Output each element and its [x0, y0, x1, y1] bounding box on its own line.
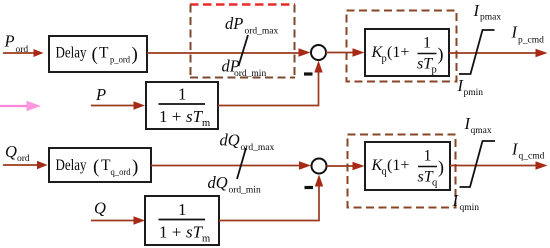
arrowhead into summer1	[299, 48, 311, 56]
svg-text:Q: Q	[94, 199, 106, 218]
wire Delay1 to summer1	[147, 52, 299, 54]
summing junction 1	[311, 45, 326, 60]
rate limiter dashed box dP (top edge red)	[190, 3, 295, 5]
minus sign 2	[305, 186, 314, 189]
wire Q input	[91, 220, 134, 222]
arrowhead into Kp	[353, 48, 365, 56]
svg-text:1: 1	[178, 85, 187, 104]
arrowhead output I_q_cmd	[536, 161, 548, 169]
block Kp PI controller	[365, 29, 449, 76]
wire summer2 to Kq	[327, 165, 355, 167]
svg-text:): )	[438, 157, 444, 178]
wire P input	[91, 105, 135, 107]
arrowhead Q into filter	[134, 216, 146, 224]
wire Q_ord input	[3, 164, 37, 166]
wire Q filter to summer2	[219, 186, 319, 221]
arrowhead P_ord	[34, 49, 44, 57]
arrowhead P into filter	[134, 101, 146, 109]
arrowhead up into summer1	[314, 61, 322, 73]
arrowhead Q_ord	[37, 161, 48, 169]
block measuring filter 1/(1+sTm) Q	[145, 196, 219, 245]
arrowhead into summer2	[299, 161, 311, 169]
block Kq PI controller	[365, 142, 450, 190]
svg-text:P: P	[95, 85, 106, 104]
svg-text:1: 1	[423, 35, 431, 52]
svg-text:1: 1	[424, 148, 432, 165]
block measuring filter 1/(1+sTm) P	[146, 82, 218, 129]
wire P_ord input	[3, 52, 37, 54]
block Delay (T_p_ord)	[49, 36, 147, 72]
summing junction 2	[312, 159, 327, 174]
wire summer1 to Kp	[326, 52, 354, 54]
faint artifact arrow (compression ghost)	[0, 105, 27, 107]
arrowhead output I_p_cmd	[536, 49, 548, 57]
saturation limiter 2	[460, 141, 496, 187]
minus sign 1	[304, 72, 313, 75]
svg-text:1: 1	[178, 200, 187, 219]
arrowhead up into summer2	[315, 175, 323, 187]
PI dashed box Kp	[347, 11, 457, 82]
block Delay (T_q_ord)	[49, 148, 151, 182]
saturation limiter 1	[459, 30, 495, 74]
svg-text:): )	[438, 44, 444, 65]
arrowhead into Kq	[353, 162, 365, 170]
wire Kq to output	[450, 165, 536, 167]
wire Kp to output	[449, 52, 536, 54]
rate limiter slash dQ	[237, 148, 246, 179]
wire Delay2 to summer2	[151, 165, 300, 167]
wire P filter to summer1	[218, 72, 319, 106]
PI dashed box Kq	[348, 135, 456, 208]
rate limiter slash dP	[239, 35, 249, 66]
